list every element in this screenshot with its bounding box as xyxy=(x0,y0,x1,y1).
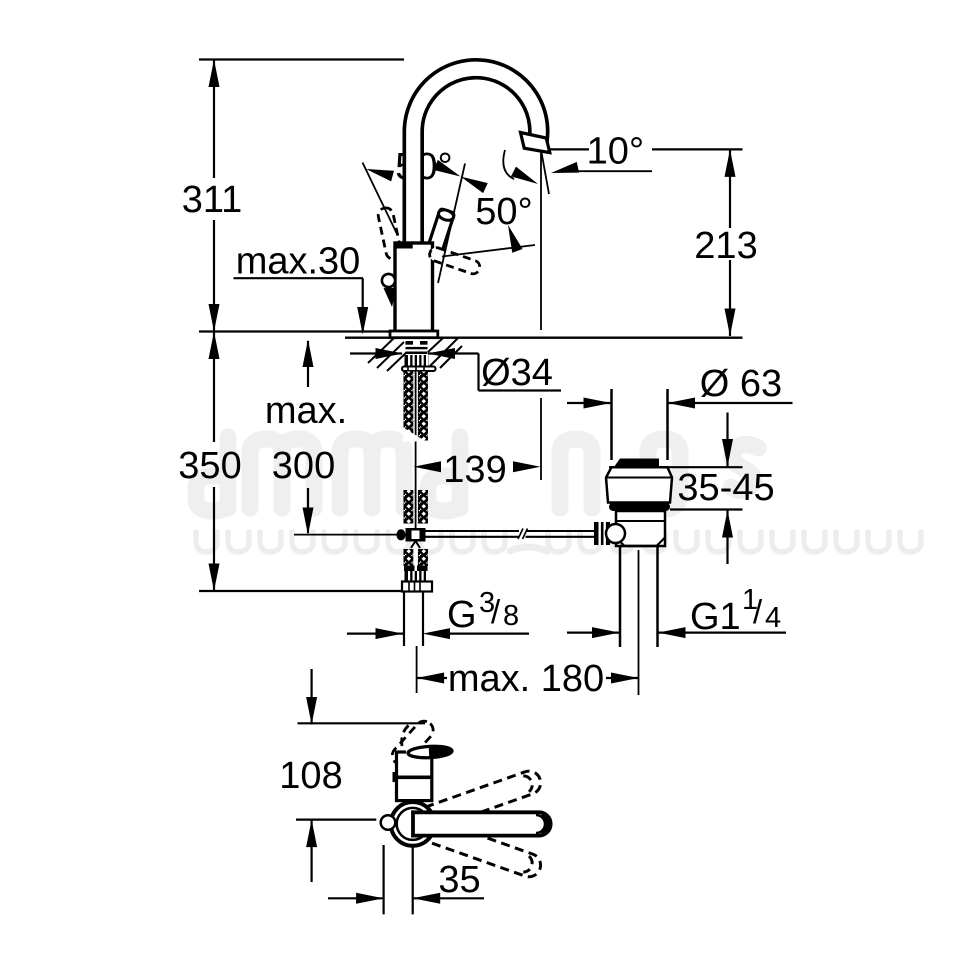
dimension 108 lower ref line and arrow xyxy=(296,820,376,882)
plan view: lever swung up (dashed) xyxy=(425,768,544,880)
leader for max.30 xyxy=(234,278,364,331)
plan view: spout section ellipse xyxy=(406,743,453,759)
svg-text:Ø 63: Ø 63 xyxy=(700,363,782,405)
drain assembly xyxy=(426,389,673,647)
rod socket on waste (ribbed) xyxy=(594,522,610,545)
dimension line max.180 xyxy=(417,677,639,679)
dimension line 311 xyxy=(213,60,215,332)
extension line: pop-up rod level xyxy=(294,534,397,536)
svg-text:311: 311 xyxy=(182,179,243,221)
rod coupling knob xyxy=(396,529,405,540)
angle leg: lowered handle axis xyxy=(442,245,535,257)
svg-text:50°: 50° xyxy=(475,191,532,233)
rod ball joint xyxy=(606,524,625,543)
plan view (bottom) xyxy=(381,718,551,915)
pop-up rod knob stem xyxy=(384,288,397,307)
supply pipe end xyxy=(404,592,423,647)
aerator / mousseur collar xyxy=(521,133,550,153)
mounting nut (ribbed) xyxy=(405,355,429,366)
hose connector (ribbed) xyxy=(405,571,429,582)
lever handle alternate position (dashed, left) xyxy=(377,206,402,260)
plan view: pop-up knob xyxy=(381,815,396,830)
flexible supply hose (lower) xyxy=(404,549,429,566)
svg-text:350: 350 xyxy=(178,445,241,487)
horizontal pop-up rod (with break) xyxy=(426,531,595,537)
waste plug cap xyxy=(614,459,659,468)
centre lines: faucet axis and drain axis xyxy=(417,550,639,695)
dimension line 213 xyxy=(729,149,731,336)
countertop / deck line xyxy=(345,337,743,339)
lever handle (solid) xyxy=(425,208,455,259)
gooseneck spout outer xyxy=(413,69,539,247)
svg-text:/: / xyxy=(753,593,763,630)
svg-text:G1: G1 xyxy=(690,596,741,638)
dimension line max.300 xyxy=(307,341,309,533)
arrowheads xyxy=(209,60,736,904)
dimension line 35 (plan) xyxy=(328,897,484,899)
gooseneck spout bore xyxy=(413,69,539,247)
pop-up waste upper pipe xyxy=(612,389,668,460)
plan view: faucet body xyxy=(397,752,432,801)
escutcheon base plate xyxy=(390,331,438,338)
plan view: handle hub inner xyxy=(397,808,429,840)
svg-text:300: 300 xyxy=(272,445,335,487)
waste flange body xyxy=(606,467,672,502)
lever handle alternate position (dashed, lowered) xyxy=(428,246,482,276)
plan view: spout (dashed) xyxy=(389,718,437,769)
spout axis tilted 10 deg xyxy=(542,153,550,195)
svg-text:max.30: max.30 xyxy=(236,240,361,282)
pop-up rod knob xyxy=(382,274,395,287)
svg-text:35: 35 xyxy=(438,859,480,901)
hatch under deck xyxy=(368,338,462,371)
angle leg: left handle position axis xyxy=(363,163,398,235)
flexible supply hose (upper) xyxy=(404,372,429,441)
leader for diameter 34 xyxy=(350,354,561,391)
cartridge cap (black) xyxy=(394,242,413,249)
extension line: mounting surface (escutcheon top) xyxy=(199,330,391,332)
faucet side view xyxy=(363,69,550,338)
svg-text:Ø34: Ø34 xyxy=(481,352,553,394)
plan view: handle hub outer xyxy=(391,802,435,846)
washer xyxy=(402,367,436,372)
extension line: spout top level xyxy=(199,58,404,60)
svg-text:max.: max. xyxy=(265,390,347,432)
dimension line 350 xyxy=(213,332,215,592)
dimension framework xyxy=(199,60,793,899)
svg-text:max. 180: max. 180 xyxy=(448,658,604,700)
svg-text:4: 4 xyxy=(765,602,781,634)
svg-text:213: 213 xyxy=(694,225,757,267)
dimension line G1 1/4 xyxy=(567,631,786,633)
dimension lines 35-45 xyxy=(609,413,743,565)
dimension 108 upper arrow and ref line xyxy=(298,669,426,725)
svg-text:8: 8 xyxy=(503,600,519,632)
svg-text:139: 139 xyxy=(443,449,506,491)
svg-text:G: G xyxy=(447,594,477,636)
waste sealing ring (black) xyxy=(609,503,670,512)
extension line: hose end level xyxy=(199,590,432,592)
svg-text:10°: 10° xyxy=(587,130,644,172)
svg-text:35-45: 35-45 xyxy=(677,467,774,509)
plan view: lever handle (solid) xyxy=(413,812,551,835)
mounting thread section xyxy=(406,341,428,354)
WATERMARK xyxy=(196,437,921,552)
extension line: spout outlet vertical xyxy=(540,153,542,481)
waste body xyxy=(616,511,665,546)
rod clamp block xyxy=(406,528,426,542)
faucet body xyxy=(395,243,433,332)
leader arrow line for 10 deg xyxy=(572,170,652,172)
plan view: supply shank xyxy=(384,845,413,914)
angle leg: handle axis extended xyxy=(438,164,465,284)
arc leader for 10 deg xyxy=(503,150,514,179)
pop-up pull rod xyxy=(415,372,417,486)
flexible supply hose (middle) xyxy=(404,490,429,524)
svg-text:/: / xyxy=(491,593,501,630)
shank stack xyxy=(396,341,435,646)
dimension line G3/8 xyxy=(347,632,529,634)
dimension line diameter 63 xyxy=(567,402,793,404)
waste tailpipe G1 1/4 xyxy=(620,546,658,647)
extension line at spout outlet (10 deg label line) xyxy=(550,148,743,150)
svg-text:108: 108 xyxy=(279,755,342,797)
connection nut G3/8 xyxy=(402,582,432,592)
